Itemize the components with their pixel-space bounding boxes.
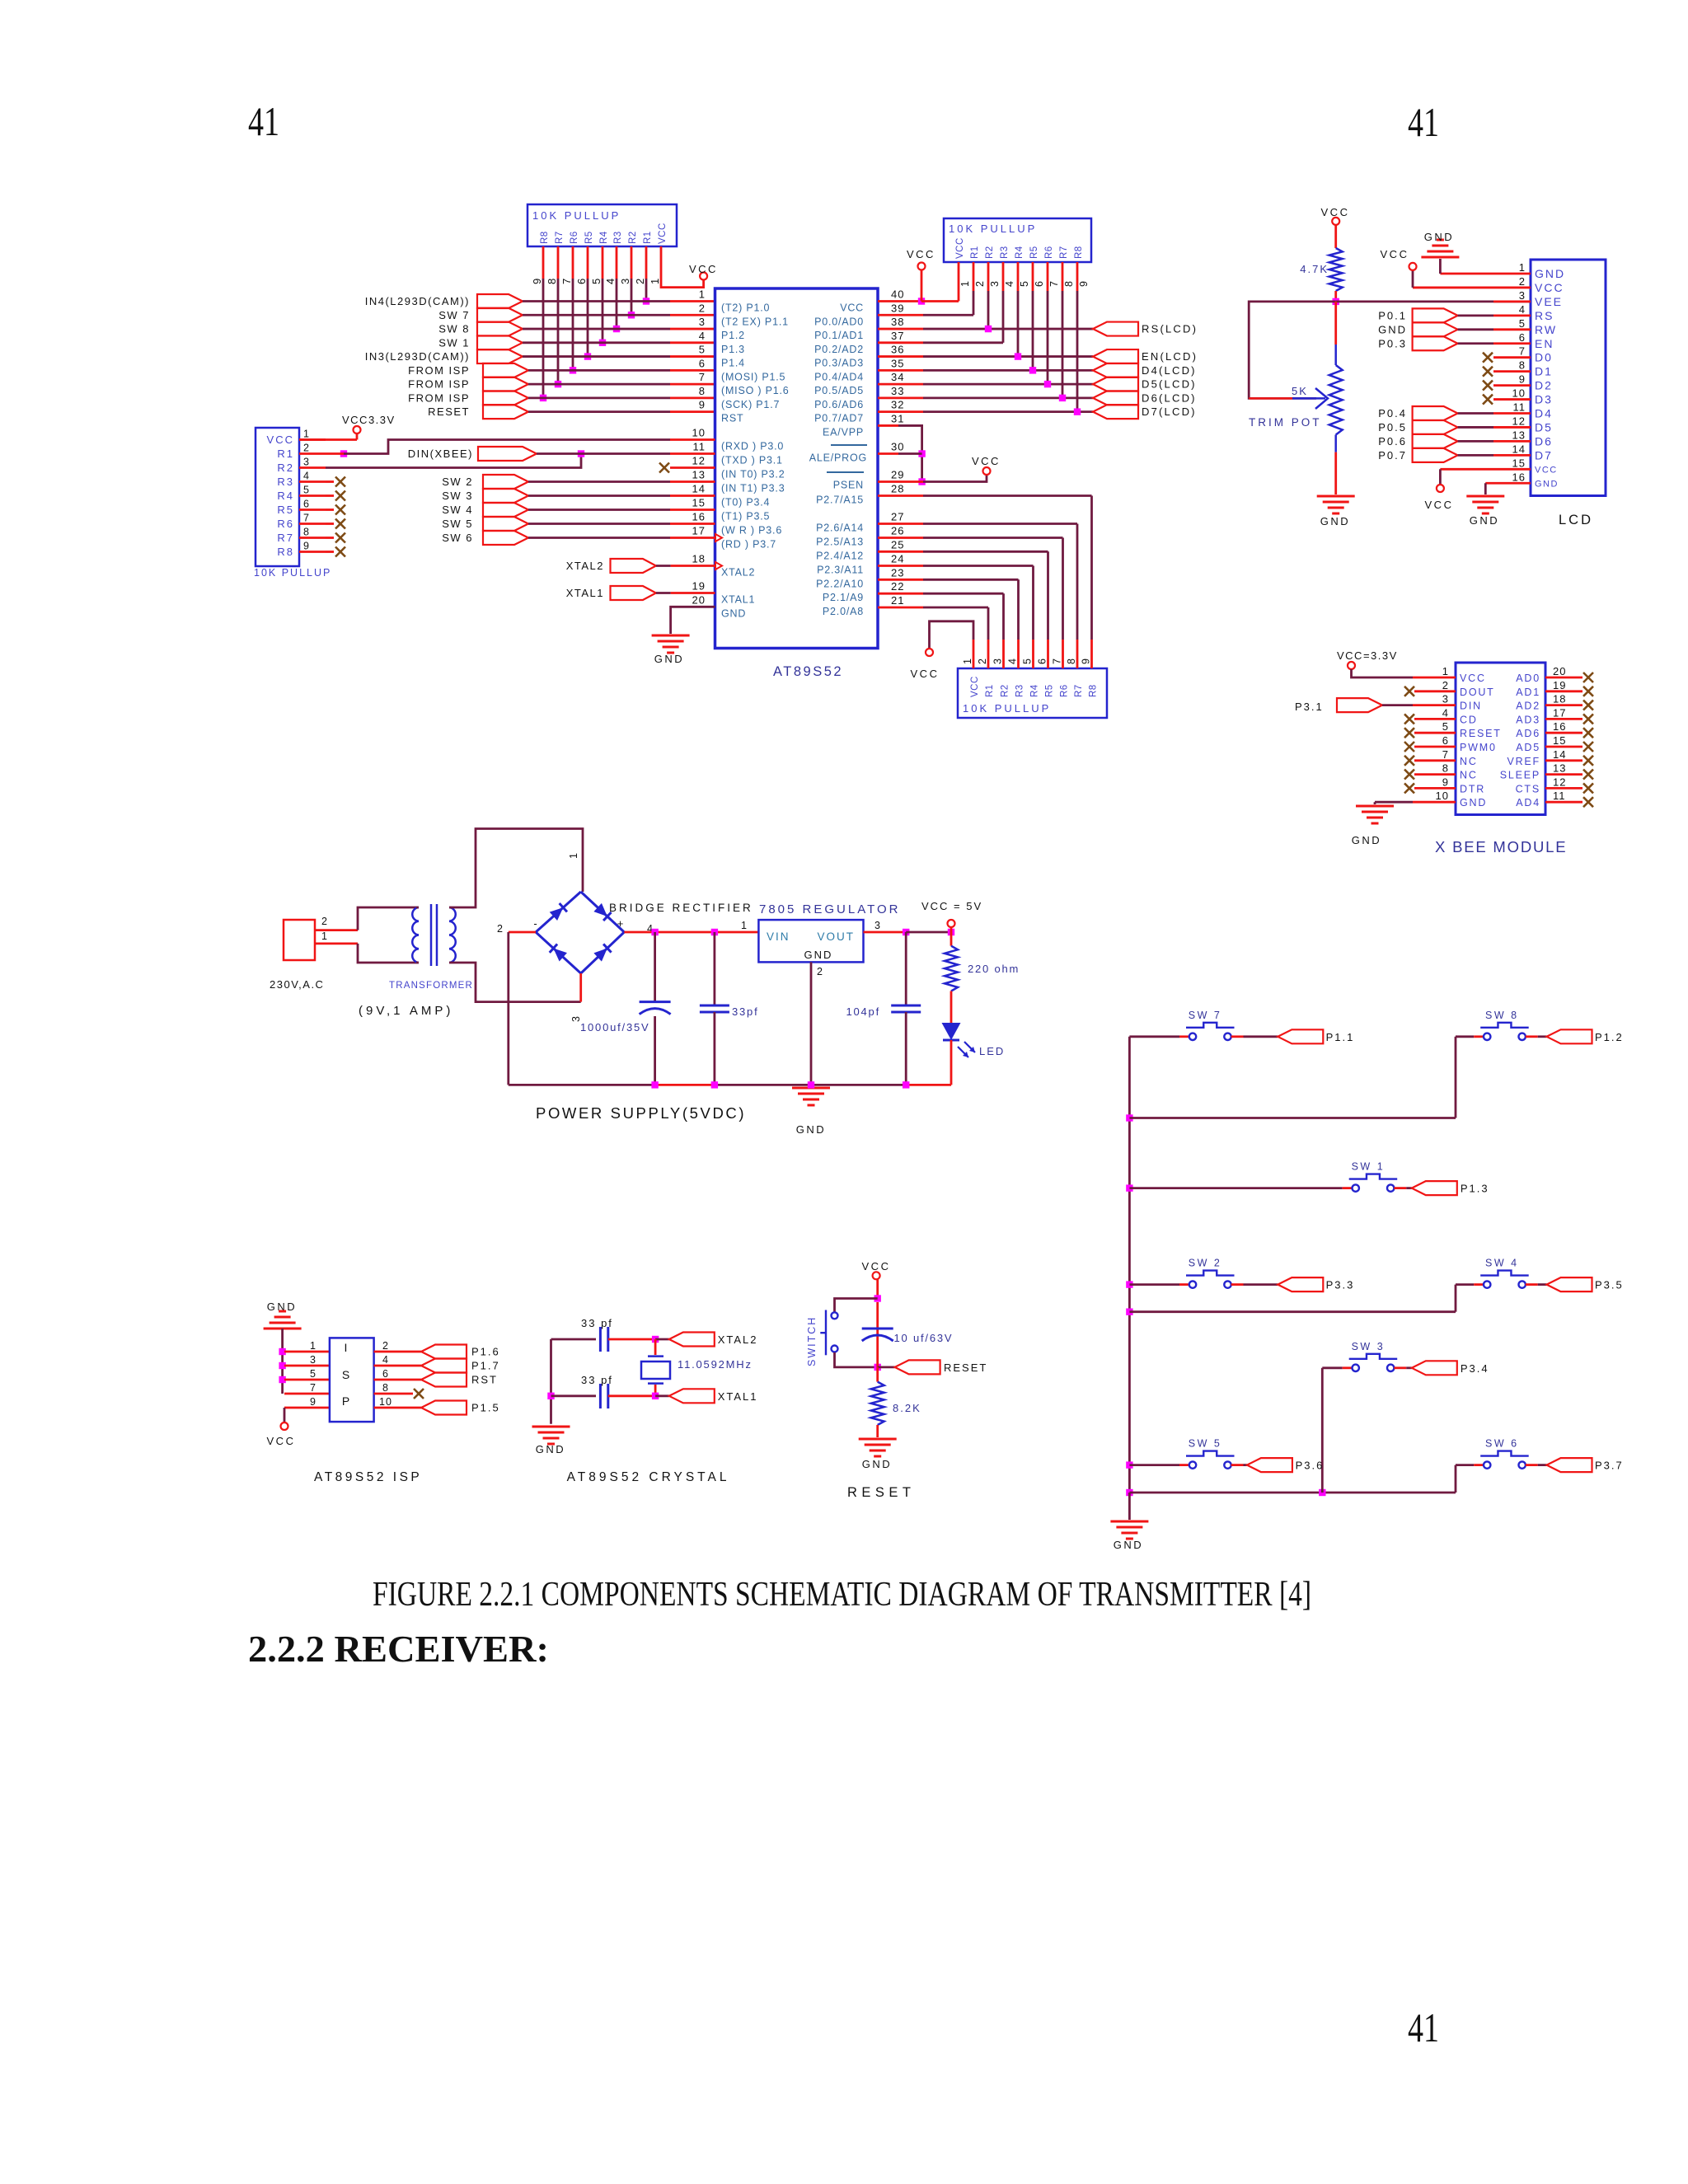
- svg-text:R1: R1: [985, 684, 995, 697]
- svg-text:30: 30: [891, 441, 904, 453]
- svg-text:11: 11: [1513, 401, 1526, 414]
- svg-text:RST: RST: [721, 413, 743, 424]
- svg-text:8: 8: [546, 278, 558, 284]
- svg-text:AD5: AD5: [1516, 742, 1540, 753]
- svg-text:(IN T0) P3.2: (IN T0) P3.2: [721, 469, 785, 480]
- svg-text:19: 19: [1553, 679, 1566, 691]
- svg-text:AD1: AD1: [1516, 687, 1540, 698]
- svg-text:8: 8: [699, 385, 706, 397]
- svg-text:1: 1: [303, 429, 310, 440]
- svg-text:16: 16: [1553, 720, 1566, 733]
- svg-text:P0.6: P0.6: [1378, 435, 1407, 448]
- svg-text:41: 41: [1408, 99, 1439, 145]
- svg-text:10: 10: [1512, 387, 1526, 400]
- svg-text:9: 9: [1081, 658, 1092, 664]
- svg-text:P0.0/AD0: P0.0/AD0: [814, 316, 864, 327]
- svg-text:11.0592MHz: 11.0592MHz: [678, 1358, 753, 1371]
- svg-text:R6: R6: [277, 518, 294, 530]
- svg-text:(T2) P1.0: (T2) P1.0: [721, 302, 770, 314]
- svg-text:7: 7: [1048, 280, 1060, 287]
- svg-text:R5: R5: [1045, 684, 1055, 697]
- svg-text:VCC: VCC: [862, 1260, 891, 1272]
- svg-text:10: 10: [692, 427, 706, 439]
- svg-text:33: 33: [891, 385, 904, 397]
- svg-text:P3.4: P3.4: [1461, 1362, 1489, 1375]
- svg-text:PWM0: PWM0: [1460, 742, 1497, 753]
- svg-text:GND: GND: [1352, 834, 1381, 846]
- svg-text:7: 7: [1052, 658, 1063, 664]
- svg-text:RESET: RESET: [1460, 728, 1502, 739]
- svg-text:8: 8: [1442, 762, 1449, 775]
- svg-text:VREF: VREF: [1507, 756, 1540, 767]
- svg-text:D7(LCD): D7(LCD): [1142, 405, 1197, 418]
- svg-text:P0.5/AD5: P0.5/AD5: [814, 385, 864, 396]
- svg-text:BRIDGE RECTIFIER: BRIDGE RECTIFIER: [609, 902, 753, 914]
- svg-text:R4: R4: [1015, 246, 1025, 259]
- svg-text:D5: D5: [1535, 420, 1553, 434]
- svg-text:18: 18: [1553, 693, 1566, 705]
- svg-text:D0: D0: [1535, 351, 1553, 364]
- svg-text:LED: LED: [979, 1045, 1005, 1057]
- svg-text:R1: R1: [643, 231, 653, 244]
- svg-text:SW 8: SW 8: [438, 323, 470, 335]
- svg-text:LCD: LCD: [1559, 513, 1593, 527]
- svg-text:4: 4: [1519, 303, 1526, 316]
- svg-text:8: 8: [1063, 280, 1075, 287]
- svg-text:R4: R4: [1030, 684, 1040, 697]
- svg-text:9: 9: [303, 541, 310, 552]
- svg-text:4: 4: [303, 471, 310, 482]
- svg-text:1: 1: [741, 920, 748, 931]
- svg-text:AT89S52 ISP: AT89S52 ISP: [314, 1470, 422, 1484]
- svg-text:XTAL1: XTAL1: [566, 587, 604, 599]
- svg-text:P0.7: P0.7: [1378, 449, 1407, 462]
- svg-text:R3: R3: [277, 476, 294, 488]
- svg-text:R1: R1: [970, 246, 980, 259]
- svg-text:3: 3: [1519, 289, 1526, 302]
- svg-text:32: 32: [891, 399, 904, 411]
- svg-text:P0.1: P0.1: [1378, 309, 1407, 321]
- svg-text:R7: R7: [1059, 246, 1069, 259]
- svg-text:R4: R4: [599, 231, 609, 244]
- svg-text:2: 2: [321, 916, 328, 927]
- svg-text:P0.2/AD2: P0.2/AD2: [814, 344, 864, 355]
- svg-text:3: 3: [1442, 693, 1449, 705]
- svg-text:SW 2: SW 2: [1189, 1258, 1222, 1269]
- svg-text:GND: GND: [796, 1123, 826, 1136]
- svg-text:VCC: VCC: [1535, 465, 1558, 475]
- svg-text:D7: D7: [1535, 448, 1553, 462]
- svg-text:2: 2: [634, 278, 646, 284]
- svg-text:AD3: AD3: [1516, 714, 1540, 725]
- svg-text:P0.1/AD1: P0.1/AD1: [814, 330, 864, 341]
- svg-text:5: 5: [1019, 280, 1030, 287]
- svg-text:R8: R8: [277, 546, 294, 558]
- svg-text:P1.2: P1.2: [721, 330, 745, 341]
- svg-text:AT89S52: AT89S52: [773, 664, 843, 679]
- svg-text:13: 13: [692, 469, 706, 481]
- svg-text:VCC3.3V: VCC3.3V: [342, 414, 396, 426]
- svg-text:AD2: AD2: [1516, 701, 1540, 712]
- svg-text:31: 31: [891, 412, 904, 424]
- svg-text:VCC: VCC: [1535, 281, 1564, 294]
- svg-text:2: 2: [1519, 275, 1526, 288]
- svg-text:230V,A.C: 230V,A.C: [270, 978, 324, 991]
- svg-text:P3.6: P3.6: [1296, 1460, 1325, 1472]
- svg-text:35: 35: [891, 357, 904, 369]
- svg-text:R1: R1: [277, 448, 294, 460]
- svg-text:D2: D2: [1535, 379, 1553, 392]
- svg-text:R8: R8: [1074, 246, 1084, 259]
- svg-text:RST: RST: [471, 1374, 498, 1386]
- svg-text:10 uf/63V: 10 uf/63V: [894, 1332, 954, 1344]
- svg-text:3: 3: [699, 316, 706, 328]
- svg-text:14: 14: [1553, 748, 1566, 761]
- svg-text:16: 16: [1512, 471, 1526, 483]
- svg-text:9: 9: [1519, 373, 1526, 386]
- svg-text:2: 2: [974, 280, 986, 287]
- svg-text:6: 6: [1442, 734, 1449, 747]
- svg-text:R2: R2: [985, 246, 995, 259]
- svg-text:VCC: VCC: [267, 434, 294, 446]
- svg-text:(T2 EX) P1.1: (T2 EX) P1.1: [721, 316, 789, 327]
- svg-text:P3.7: P3.7: [1595, 1460, 1624, 1472]
- svg-text:TRIM POT: TRIM POT: [1249, 416, 1322, 429]
- svg-text:SW 1: SW 1: [1352, 1161, 1386, 1173]
- svg-text:CTS: CTS: [1516, 783, 1540, 794]
- svg-text:SLEEP: SLEEP: [1500, 770, 1540, 781]
- svg-text:R2: R2: [1001, 684, 1010, 697]
- svg-text:4: 4: [382, 1354, 389, 1366]
- svg-text:15: 15: [1512, 457, 1526, 469]
- svg-text:GND: GND: [536, 1443, 565, 1455]
- svg-text:-: -: [533, 917, 537, 930]
- svg-text:P1.3: P1.3: [1461, 1183, 1489, 1195]
- svg-text:4: 4: [604, 278, 617, 284]
- svg-text:5: 5: [699, 344, 706, 356]
- svg-text:RW: RW: [1535, 323, 1557, 336]
- svg-text:10: 10: [1436, 790, 1449, 802]
- svg-text:RESET: RESET: [944, 1361, 987, 1374]
- svg-text:10K PULLUP: 10K PULLUP: [254, 567, 331, 579]
- svg-text:AT89S52 CRYSTAL: AT89S52 CRYSTAL: [567, 1470, 730, 1484]
- svg-text:FROM ISP: FROM ISP: [408, 391, 470, 404]
- svg-text:6: 6: [382, 1368, 389, 1380]
- svg-text:5: 5: [590, 278, 603, 284]
- svg-text:IN4(L293D(CAM)): IN4(L293D(CAM)): [365, 295, 470, 307]
- svg-text:2: 2: [1442, 679, 1449, 691]
- svg-text:ALE/PROG: ALE/PROG: [809, 452, 867, 464]
- svg-text:P0.5: P0.5: [1378, 421, 1407, 434]
- svg-text:3: 3: [992, 658, 1004, 664]
- svg-text:SW 6: SW 6: [442, 532, 473, 544]
- svg-text:2: 2: [303, 443, 310, 454]
- svg-text:6: 6: [1034, 280, 1045, 287]
- svg-text:(MISO ) P1.6: (MISO ) P1.6: [721, 385, 790, 396]
- svg-text:7: 7: [1519, 345, 1526, 358]
- svg-text:EN(LCD): EN(LCD): [1142, 350, 1198, 363]
- svg-text:FROM ISP: FROM ISP: [408, 378, 470, 391]
- svg-text:R6: R6: [570, 231, 579, 244]
- svg-text:RESET: RESET: [847, 1485, 916, 1500]
- svg-text:SW 2: SW 2: [442, 476, 473, 488]
- svg-text:X BEE MODULE: X BEE MODULE: [1435, 838, 1567, 855]
- svg-text:P3.3: P3.3: [1326, 1279, 1355, 1291]
- svg-text:3: 3: [989, 280, 1001, 287]
- svg-text:P1.2: P1.2: [1595, 1031, 1624, 1043]
- svg-text:2: 2: [817, 966, 823, 977]
- svg-text:15: 15: [1553, 734, 1566, 747]
- svg-text:GND: GND: [721, 607, 746, 619]
- svg-text:7: 7: [1442, 748, 1449, 761]
- svg-text:1000uf/35V: 1000uf/35V: [580, 1021, 650, 1033]
- svg-text:DIN(XBEE): DIN(XBEE): [408, 448, 473, 460]
- svg-text:R6: R6: [1060, 684, 1070, 697]
- svg-text:+: +: [617, 917, 625, 930]
- svg-text:XTAL2: XTAL2: [566, 560, 604, 572]
- svg-text:40: 40: [891, 288, 904, 301]
- svg-text:R8: R8: [1089, 684, 1099, 697]
- svg-text:4: 4: [1004, 280, 1015, 287]
- svg-text:GND: GND: [1320, 515, 1350, 527]
- svg-text:P0.7/AD7: P0.7/AD7: [814, 413, 864, 424]
- svg-text:P2.6/A14: P2.6/A14: [816, 523, 864, 534]
- svg-text:DOUT: DOUT: [1460, 687, 1495, 698]
- svg-text:XTAL1: XTAL1: [721, 594, 755, 606]
- svg-text:SW 8: SW 8: [1485, 1010, 1519, 1021]
- svg-text:P2.3/A11: P2.3/A11: [817, 565, 864, 576]
- svg-text:GND: GND: [1470, 514, 1499, 527]
- svg-text:14: 14: [1512, 443, 1526, 455]
- svg-text:P3.5: P3.5: [1595, 1279, 1624, 1291]
- svg-text:5K: 5K: [1292, 385, 1308, 397]
- svg-text:P1.5: P1.5: [471, 1402, 500, 1414]
- svg-text:33 pf: 33 pf: [581, 1317, 613, 1329]
- svg-text:NC: NC: [1460, 770, 1478, 781]
- svg-text:1: 1: [1519, 261, 1526, 274]
- svg-text:NC: NC: [1460, 756, 1478, 767]
- svg-text:IN3(L293D(CAM)): IN3(L293D(CAM)): [365, 350, 470, 363]
- svg-text:GND: GND: [804, 949, 833, 961]
- svg-text:5: 5: [1442, 720, 1449, 733]
- svg-text:R3: R3: [1000, 246, 1010, 259]
- svg-text:EN: EN: [1535, 337, 1554, 350]
- svg-text:P1.3: P1.3: [721, 344, 745, 355]
- svg-text:(MOSI) P1.5: (MOSI) P1.5: [721, 371, 785, 382]
- svg-text:3: 3: [303, 457, 310, 468]
- svg-text:(T0) P3.4: (T0) P3.4: [721, 497, 770, 509]
- svg-text:17: 17: [1553, 706, 1566, 719]
- svg-text:8.2K: 8.2K: [893, 1402, 921, 1414]
- svg-text:GND: GND: [1460, 797, 1487, 808]
- svg-text:RESET: RESET: [428, 405, 470, 418]
- svg-text:GND: GND: [654, 653, 684, 665]
- svg-text:13: 13: [1553, 762, 1566, 775]
- svg-text:GND: GND: [1378, 323, 1407, 335]
- svg-text:33 pf: 33 pf: [581, 1374, 613, 1386]
- svg-text:39: 39: [891, 302, 904, 314]
- svg-text:FROM ISP: FROM ISP: [408, 364, 470, 377]
- svg-text:R7: R7: [555, 231, 565, 244]
- svg-text:P1.7: P1.7: [471, 1360, 500, 1372]
- svg-text:VCC: VCC: [267, 1435, 296, 1447]
- svg-text:R3: R3: [613, 231, 623, 244]
- svg-text:(W R ) P3.6: (W R ) P3.6: [721, 525, 782, 537]
- svg-text:6: 6: [1519, 331, 1526, 344]
- svg-text:14: 14: [692, 483, 706, 495]
- svg-text:GND: GND: [1424, 231, 1454, 243]
- svg-text:4.7K: 4.7K: [1300, 263, 1329, 275]
- svg-text:6: 6: [575, 278, 588, 284]
- svg-text:20: 20: [1553, 665, 1566, 677]
- svg-text:24: 24: [891, 553, 904, 565]
- svg-text:P0.4: P0.4: [1378, 407, 1407, 419]
- svg-text:D5(LCD): D5(LCD): [1142, 378, 1197, 391]
- svg-text:GND: GND: [1114, 1539, 1143, 1551]
- svg-text:11: 11: [693, 441, 706, 453]
- svg-text:I: I: [345, 1341, 349, 1354]
- svg-text:R5: R5: [277, 504, 294, 516]
- svg-text:P: P: [342, 1394, 350, 1408]
- svg-text:CD: CD: [1460, 714, 1478, 725]
- svg-text:8: 8: [1066, 658, 1077, 664]
- svg-text:9: 9: [531, 278, 543, 284]
- svg-text:2: 2: [497, 923, 504, 935]
- svg-text:FIGURE 2.2.1 COMPONENTS SCHEMA: FIGURE 2.2.1 COMPONENTS SCHEMATIC DIAGRA…: [373, 1576, 1311, 1614]
- svg-text:(T1) P3.5: (T1) P3.5: [721, 511, 770, 523]
- svg-text:S: S: [342, 1368, 350, 1381]
- svg-text:SW 4: SW 4: [1485, 1258, 1519, 1269]
- svg-text:SW 7: SW 7: [1189, 1010, 1222, 1021]
- svg-text:38: 38: [891, 316, 904, 328]
- svg-text:36: 36: [891, 344, 904, 356]
- svg-text:D3: D3: [1535, 393, 1553, 406]
- svg-text:1: 1: [321, 930, 328, 942]
- svg-text:1: 1: [699, 288, 706, 301]
- svg-text:11: 11: [1553, 790, 1566, 802]
- svg-text:8: 8: [382, 1382, 389, 1394]
- svg-text:34: 34: [891, 371, 904, 383]
- svg-text:6: 6: [1037, 658, 1048, 664]
- svg-text:EA/VPP: EA/VPP: [823, 426, 864, 438]
- svg-text:D6: D6: [1535, 434, 1553, 448]
- svg-text:(RXD ) P3.0: (RXD ) P3.0: [721, 441, 784, 452]
- svg-text:P3.1: P3.1: [1295, 701, 1324, 713]
- svg-text:VCC: VCC: [1425, 499, 1454, 511]
- svg-text:DTR: DTR: [1460, 783, 1485, 794]
- svg-text:26: 26: [891, 525, 904, 537]
- svg-text:7: 7: [560, 278, 573, 284]
- svg-text:6: 6: [303, 499, 310, 510]
- svg-text:220 ohm: 220 ohm: [968, 963, 1020, 975]
- svg-text:D4(LCD): D4(LCD): [1142, 364, 1197, 377]
- svg-text:P2.5/A13: P2.5/A13: [816, 537, 864, 548]
- svg-text:VCC: VCC: [1321, 206, 1350, 218]
- svg-text:1: 1: [568, 852, 579, 859]
- svg-text:4: 4: [1007, 658, 1019, 664]
- svg-text:SW 6: SW 6: [1485, 1438, 1519, 1450]
- svg-text:22: 22: [891, 580, 904, 593]
- svg-text:10K PULLUP: 10K PULLUP: [532, 209, 621, 222]
- svg-text:R6: R6: [1044, 246, 1054, 259]
- svg-text:R2: R2: [628, 231, 638, 244]
- svg-text:XTAL2: XTAL2: [718, 1333, 758, 1346]
- svg-text:XTAL2: XTAL2: [721, 567, 755, 579]
- svg-text:VIN: VIN: [767, 930, 790, 943]
- svg-text:SW 5: SW 5: [1189, 1438, 1222, 1450]
- svg-text:3: 3: [619, 278, 631, 284]
- svg-text:18: 18: [692, 553, 706, 565]
- svg-text:7: 7: [303, 513, 310, 524]
- svg-text:VCC: VCC: [972, 455, 1001, 467]
- svg-text:16: 16: [692, 511, 706, 523]
- svg-text:28: 28: [891, 483, 904, 495]
- svg-text:29: 29: [891, 469, 904, 481]
- svg-text:37: 37: [891, 330, 904, 342]
- svg-text:SWITCH: SWITCH: [806, 1316, 818, 1366]
- svg-text:R2: R2: [277, 462, 294, 474]
- svg-text:R5: R5: [1029, 246, 1039, 259]
- svg-text:VCC: VCC: [970, 676, 980, 697]
- svg-text:5: 5: [310, 1368, 316, 1380]
- svg-text:5: 5: [1519, 317, 1526, 330]
- svg-text:VCC: VCC: [1460, 673, 1486, 684]
- svg-text:13: 13: [1512, 429, 1526, 441]
- svg-text:VCC: VCC: [955, 237, 965, 259]
- svg-text:VCC: VCC: [658, 223, 668, 244]
- svg-text:TRANSFORMER: TRANSFORMER: [389, 981, 473, 991]
- svg-text:20: 20: [692, 593, 706, 606]
- svg-text:41: 41: [1408, 2004, 1439, 2050]
- svg-text:POWER SUPPLY(5VDC): POWER SUPPLY(5VDC): [536, 1104, 746, 1122]
- svg-text:33pf: 33pf: [732, 1005, 759, 1018]
- svg-text:P2.7/A15: P2.7/A15: [816, 494, 864, 506]
- svg-text:VCC=3.3V: VCC=3.3V: [1337, 649, 1398, 662]
- svg-text:AD0: AD0: [1516, 673, 1540, 684]
- svg-text:(IN T1) P3.3: (IN T1) P3.3: [721, 483, 785, 494]
- svg-text:P2.2/A10: P2.2/A10: [816, 578, 864, 589]
- svg-text:7: 7: [310, 1382, 316, 1394]
- svg-text:2.2.2 RECEIVER:: 2.2.2 RECEIVER:: [248, 1628, 549, 1670]
- svg-text:19: 19: [692, 580, 706, 593]
- svg-text:4: 4: [1442, 706, 1449, 719]
- svg-text:41: 41: [248, 98, 279, 144]
- svg-text:VCC: VCC: [1381, 248, 1409, 260]
- svg-text:(RD ) P3.7: (RD ) P3.7: [721, 539, 776, 551]
- svg-text:SW 7: SW 7: [438, 309, 470, 321]
- svg-text:8: 8: [1519, 359, 1526, 372]
- svg-text:17: 17: [692, 525, 706, 537]
- svg-text:1: 1: [962, 658, 973, 664]
- svg-text:4: 4: [699, 330, 706, 342]
- svg-text:(9V,1 AMP): (9V,1 AMP): [359, 1004, 453, 1018]
- svg-text:104pf: 104pf: [846, 1005, 880, 1018]
- svg-text:R4: R4: [277, 490, 294, 502]
- svg-text:27: 27: [891, 511, 904, 523]
- svg-text:21: 21: [891, 594, 904, 607]
- svg-text:5: 5: [1022, 658, 1034, 664]
- svg-text:25: 25: [891, 538, 904, 551]
- svg-text:VCC: VCC: [689, 263, 718, 275]
- svg-text:9: 9: [1078, 280, 1090, 287]
- svg-text:10K PULLUP: 10K PULLUP: [949, 223, 1037, 235]
- svg-text:RS(LCD): RS(LCD): [1142, 323, 1198, 335]
- svg-text:5: 5: [303, 485, 310, 496]
- svg-text:(TXD ) P3.1: (TXD ) P3.1: [721, 455, 783, 466]
- svg-text:D4: D4: [1535, 407, 1553, 420]
- svg-text:D6(LCD): D6(LCD): [1142, 391, 1197, 404]
- svg-text:GND: GND: [1535, 479, 1559, 489]
